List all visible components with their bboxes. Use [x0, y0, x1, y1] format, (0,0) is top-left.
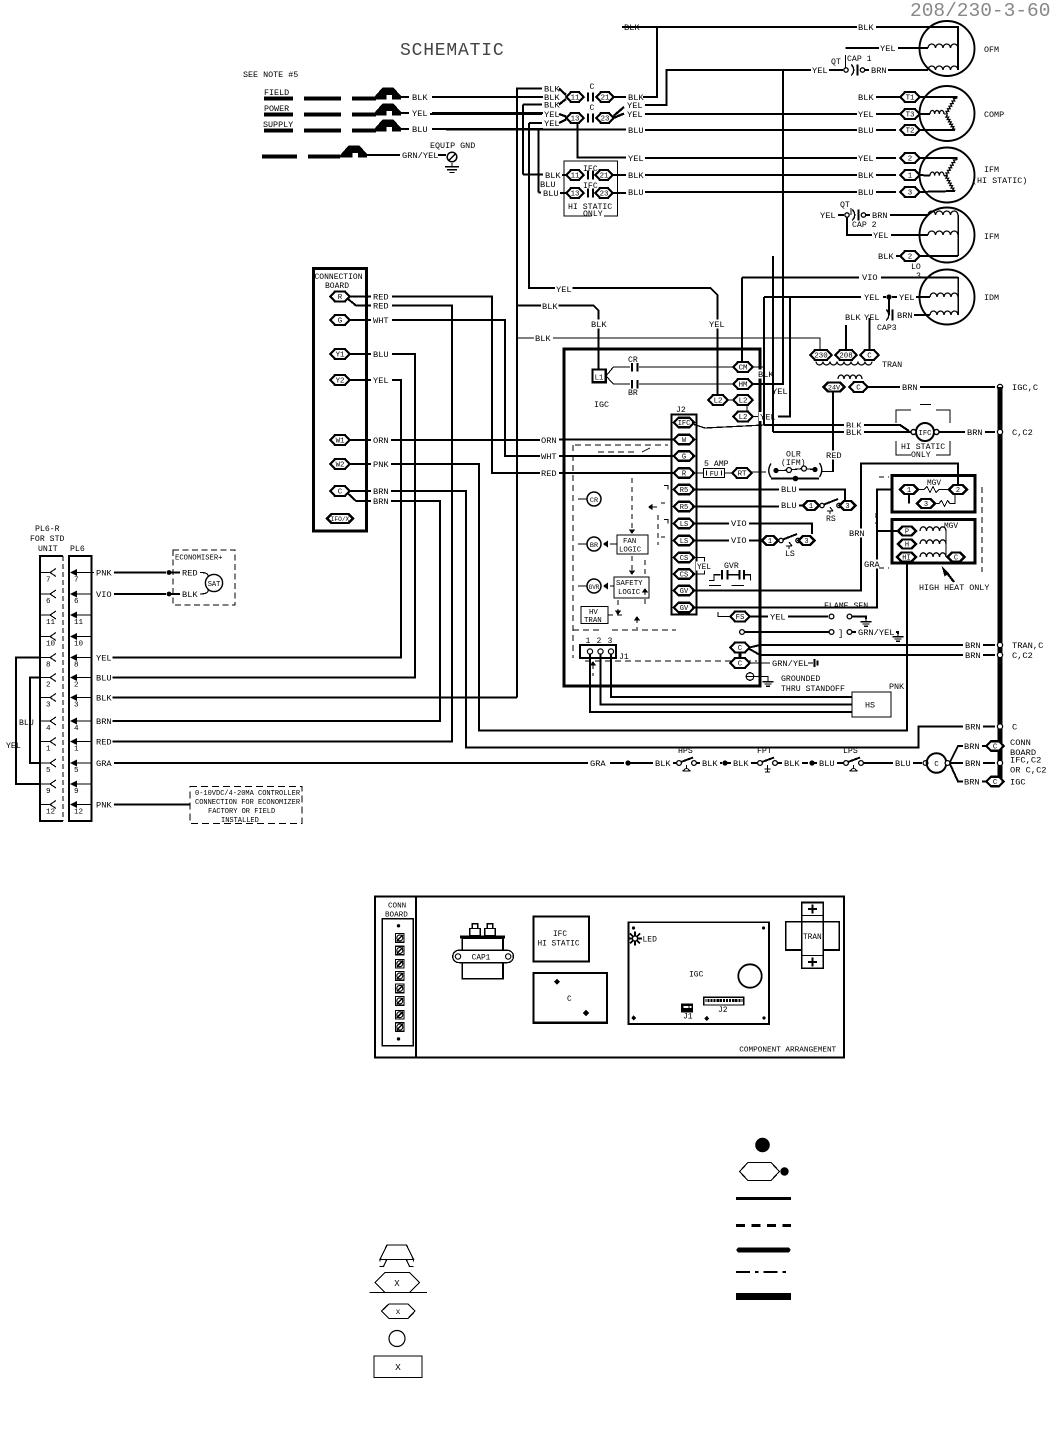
wire BLK trunk riser	[517, 89, 528, 698]
component TRAN	[786, 922, 839, 950]
IFC pole 11-21	[544, 171, 561, 180]
connection board terminal W2	[331, 459, 350, 469]
svg-text:3: 3	[924, 501, 928, 509]
svg-text:IFC: IFC	[583, 165, 598, 174]
svg-text:YEL: YEL	[873, 231, 889, 241]
svg-text:BRN: BRN	[964, 778, 980, 788]
svg-text:6: 6	[46, 598, 51, 606]
wire VIO pin6 to economiser	[95, 590, 112, 599]
svg-text:C: C	[867, 353, 872, 361]
economizer controller note box	[190, 787, 302, 824]
svg-text:SAT: SAT	[208, 581, 221, 589]
PL6 pin 2	[40, 677, 50, 679]
svg-text:VIO: VIO	[862, 273, 878, 283]
conn board terminal strip	[382, 919, 413, 1046]
wire YEL loop pin8 to pin9	[16, 658, 40, 785]
svg-text:BLU: BLU	[96, 674, 112, 684]
wire RED into R	[564, 472, 674, 474]
svg-text:0-10VDC/4-20MA CONTROLLER: 0-10VDC/4-20MA CONTROLLER	[195, 790, 301, 798]
legend splice line	[370, 1292, 428, 1294]
svg-text:IGC: IGC	[689, 971, 704, 980]
wire RED R to IGC R	[372, 292, 389, 301]
svg-text:C,C2: C,C2	[1012, 651, 1033, 661]
legend line dash-dot	[736, 1271, 791, 1273]
connector J1 on board	[681, 1004, 692, 1012]
contactor C pole 13-23	[543, 110, 560, 119]
svg-text:C: C	[338, 489, 343, 497]
legend line thick	[739, 1248, 788, 1253]
svg-text:LS: LS	[680, 538, 688, 546]
PL6 pin 7	[40, 572, 50, 574]
wire WHT G to IGC G	[372, 316, 389, 325]
svg-text:COMP: COMP	[984, 110, 1004, 120]
svg-text:BRN: BRN	[96, 717, 112, 727]
svg-text:6: 6	[74, 598, 79, 606]
svg-text:BRN: BRN	[897, 311, 913, 321]
terminal FS	[731, 612, 750, 622]
wire BLK trunk to PL6-3	[95, 697, 517, 699]
svg-text:Y2: Y2	[336, 378, 345, 386]
wire GRA pin5 chain	[95, 759, 112, 768]
connector J2 on board	[704, 997, 744, 1005]
svg-text:BRN: BRN	[373, 487, 389, 497]
capacitor CAP1 component	[472, 924, 478, 929]
svg-text:GVR: GVR	[724, 562, 739, 571]
svg-text:VIO: VIO	[731, 536, 747, 546]
svg-text:CR: CR	[590, 497, 598, 505]
svg-text:YEL: YEL	[858, 154, 874, 164]
svg-text:RED: RED	[373, 302, 389, 312]
relay coil BR	[587, 537, 601, 551]
wire VIO riser to CM	[741, 278, 743, 363]
svg-text:2: 2	[908, 156, 912, 164]
svg-text:BRN: BRN	[871, 66, 887, 76]
svg-text:RED: RED	[541, 469, 557, 479]
wire J2 IFC to BLK	[694, 425, 764, 429]
svg-text:BLK: BLK	[784, 759, 800, 769]
svg-text:2: 2	[74, 682, 79, 690]
J2 terminal IFC y422	[674, 418, 694, 428]
svg-text:GRA: GRA	[590, 759, 606, 769]
svg-text:13: 13	[571, 191, 580, 199]
svg-text:9: 9	[46, 788, 51, 796]
svg-text:BLK: BLK	[542, 302, 558, 312]
svg-text:1: 1	[46, 746, 51, 754]
svg-text:C: C	[567, 996, 572, 1004]
PL6 pin 12	[40, 804, 50, 806]
svg-text:3: 3	[804, 538, 808, 546]
panel divider	[415, 897, 417, 1058]
svg-text:IFC: IFC	[678, 420, 691, 428]
wire BLU pin2	[95, 673, 112, 682]
svg-text:PNK: PNK	[373, 460, 389, 470]
terminal RT	[733, 468, 752, 478]
svg-text:LOGIC: LOGIC	[618, 589, 641, 597]
wire BRN GV to MGV 2	[694, 464, 958, 591]
PL6 pin 5	[40, 762, 50, 764]
svg-text:BRN: BRN	[872, 211, 888, 221]
svg-text:GV: GV	[680, 605, 689, 613]
svg-text:SAFETY: SAFETY	[616, 580, 643, 588]
switch RS	[803, 501, 819, 510]
svg-text:BR: BR	[590, 542, 598, 550]
svg-text:C: C	[856, 385, 861, 393]
contact BR	[606, 376, 630, 384]
svg-text:W2: W2	[336, 462, 345, 470]
svg-text:J1: J1	[683, 1013, 693, 1022]
svg-text:3: 3	[908, 190, 912, 198]
svg-text:QT: QT	[840, 201, 850, 210]
svg-text:BLK: BLK	[535, 334, 551, 344]
wire RED 24V to OLR	[832, 392, 834, 472]
svg-text:8: 8	[74, 662, 79, 670]
HIGH HEAT ONLY label arrow	[942, 566, 950, 577]
wire BLK to OFM	[623, 23, 640, 32]
svg-text:21: 21	[600, 173, 609, 181]
svg-text:BLU: BLU	[858, 188, 874, 198]
svg-text:BRN: BRN	[967, 428, 983, 438]
connector PL6	[69, 556, 92, 821]
svg-text:CONN: CONN	[1010, 738, 1031, 748]
J2 terminal R y473	[674, 468, 694, 478]
svg-text:Y1: Y1	[336, 352, 345, 360]
svg-text:4: 4	[46, 725, 51, 733]
connection board terminal IFO/X	[327, 514, 353, 523]
svg-text:BLK: BLK	[96, 694, 112, 704]
grounded thru standoff	[746, 673, 754, 681]
svg-text:RT: RT	[738, 471, 747, 479]
svg-text:FACTORY OR FIELD: FACTORY OR FIELD	[208, 808, 275, 816]
SAFETY LOGIC box	[614, 577, 649, 598]
svg-text:R5: R5	[680, 487, 688, 495]
svg-text:(HI STATIC): (HI STATIC)	[972, 176, 1027, 186]
svg-text:BLK: BLK	[845, 313, 861, 323]
svg-text:TRAN: TRAN	[803, 934, 822, 942]
wire BRN pin4	[95, 717, 112, 726]
svg-text:1: 1	[907, 487, 911, 495]
wire RED to PL6-1	[372, 301, 389, 310]
PL6 pin 4	[40, 720, 50, 722]
wire WHT into G	[564, 455, 674, 457]
terminal C wires BRN BRN	[350, 490, 372, 492]
svg-text:IFC: IFC	[919, 430, 933, 438]
svg-text:YEL: YEL	[772, 387, 788, 397]
wire CM BLK riser down	[753, 366, 765, 368]
legend line dashed	[736, 1224, 791, 1227]
svg-text:C: C	[993, 744, 998, 752]
svg-text:BLU: BLU	[895, 759, 911, 769]
svg-text:HI STATIC: HI STATIC	[538, 941, 580, 949]
svg-text:CM: CM	[739, 365, 748, 373]
screw terminal 2	[396, 946, 405, 955]
screw terminal 1	[396, 934, 405, 943]
wire YEL IFM coil	[847, 217, 872, 235]
svg-text:X: X	[395, 1362, 401, 1373]
svg-text:CONN: CONN	[388, 903, 406, 911]
svg-text:BLK: BLK	[412, 93, 428, 103]
legend circle symbol	[389, 1331, 405, 1347]
J2 terminal LS y523	[674, 519, 694, 529]
svg-text:C: C	[954, 555, 958, 563]
legend junction dot	[755, 1138, 770, 1153]
svg-text:YEL: YEL	[544, 119, 560, 129]
svg-text:SEE NOTE #5: SEE NOTE #5	[243, 70, 298, 80]
connection board terminal Y1	[331, 349, 350, 359]
wire RED OLR to 24V	[822, 471, 833, 473]
svg-text:11: 11	[571, 173, 580, 181]
motor IFM HI STATIC	[920, 148, 975, 203]
motor OFM	[920, 21, 975, 76]
screw terminal 5	[396, 984, 405, 993]
svg-text:IFC,C2: IFC,C2	[1010, 756, 1041, 766]
component IGC board	[629, 922, 769, 1024]
wire BRN 24V to bus IGC,C	[868, 386, 901, 388]
wire BLK to IFC coil	[845, 421, 862, 430]
svg-text:PL6-R: PL6-R	[35, 525, 60, 534]
svg-text:BRN: BRN	[964, 742, 980, 752]
svg-text:L2: L2	[714, 398, 723, 406]
gas valve MGV low heat box	[892, 476, 975, 513]
svg-text:YEL: YEL	[864, 293, 880, 303]
high heat only dashed marks	[981, 487, 983, 572]
svg-text:5 AMP: 5 AMP	[704, 460, 729, 469]
svg-text:7: 7	[46, 577, 51, 585]
svg-text:YEL: YEL	[556, 285, 572, 295]
svg-text:BLU: BLU	[858, 126, 874, 136]
wire YEL Y2 to PL6-8	[372, 376, 389, 385]
svg-text:TRAN,C: TRAN,C	[1012, 641, 1043, 651]
svg-text:WHT: WHT	[373, 316, 389, 326]
svg-text:RED: RED	[96, 738, 112, 748]
svg-text:ONLY: ONLY	[911, 451, 931, 460]
LED indicator	[628, 932, 642, 946]
ECONOMISER+ box	[173, 550, 235, 605]
svg-text:IDM: IDM	[984, 293, 999, 303]
svg-text:ONLY: ONLY	[583, 210, 603, 219]
CONNECTION BOARD box	[314, 269, 367, 532]
svg-text:BRN: BRN	[965, 759, 981, 769]
svg-text:BLU: BLU	[628, 126, 644, 136]
wire BRN to IGC	[950, 764, 963, 782]
J2 terminal GV y590	[674, 586, 694, 596]
wire ORN W1 to IGC W	[372, 436, 389, 445]
svg-text:R: R	[338, 294, 343, 302]
svg-text:ECONOMISER+: ECONOMISER+	[175, 555, 222, 563]
svg-text:W1: W1	[336, 438, 345, 446]
svg-text:C: C	[738, 661, 743, 669]
J2 terminal CS y574	[674, 569, 694, 579]
wire HM to YEL riser	[753, 70, 784, 384]
relay coil GVR	[587, 579, 601, 593]
connection board terminal R	[331, 292, 350, 302]
wire C to bus TRAN,C and C,C2	[750, 645, 964, 648]
IFC contacts HI STATIC ONLY box	[564, 161, 618, 216]
wire BLU riser to IFC 13	[538, 130, 540, 193]
svg-text:OR C,C2: OR C,C2	[1010, 766, 1047, 776]
svg-text:LS: LS	[785, 550, 795, 559]
screw terminal 6	[396, 997, 405, 1006]
wire YEL to CAP1	[614, 107, 625, 116]
svg-text:CONNECTION FOR ECONOMIZER: CONNECTION FOR ECONOMIZER	[195, 799, 301, 807]
svg-text:IFM: IFM	[984, 232, 999, 242]
svg-text:BLU: BLU	[373, 350, 389, 360]
wire YEL OFM	[846, 47, 880, 49]
wire PNK pin7 to economiser	[95, 568, 112, 577]
J2 terminal LS y540	[674, 536, 694, 546]
svg-text:BLU: BLU	[628, 188, 644, 198]
wire BRN to bus IFC,C2	[950, 762, 963, 764]
svg-text:IGC,C: IGC,C	[1012, 383, 1038, 393]
FAN LOGIC box	[617, 535, 648, 554]
svg-text:YEL: YEL	[628, 154, 644, 164]
svg-text:C: C	[738, 645, 743, 653]
svg-text:BLK: BLK	[878, 252, 894, 262]
svg-text:MGV: MGV	[927, 480, 941, 488]
motor IDM	[920, 270, 975, 325]
svg-text:RS: RS	[826, 515, 836, 524]
wire BLU R5 to RS 1	[694, 506, 779, 508]
IFC pole 13-23	[539, 180, 556, 189]
svg-text:BLK: BLK	[858, 23, 874, 33]
connection board terminal Y2	[331, 375, 350, 385]
svg-text:BLU: BLU	[819, 759, 835, 769]
svg-text:1: 1	[809, 503, 813, 511]
svg-text:CS: CS	[680, 555, 688, 563]
PL6 pin 9	[40, 783, 50, 785]
svg-text:IGC: IGC	[1010, 778, 1026, 788]
wire VIO LS to 3	[694, 523, 729, 525]
svg-text:10: 10	[46, 641, 56, 649]
svg-text:YEL: YEL	[709, 320, 725, 330]
legend box symbol	[374, 1356, 422, 1378]
svg-text:CS: CS	[680, 572, 688, 580]
svg-text:X: X	[394, 1279, 400, 1289]
svg-text:13: 13	[571, 116, 580, 124]
svg-text:H: H	[905, 542, 909, 550]
svg-text:11: 11	[571, 95, 580, 103]
svg-text:FS: FS	[736, 614, 745, 622]
svg-text:GRA: GRA	[864, 560, 880, 570]
IGC control board box	[564, 349, 760, 686]
svg-text:23: 23	[601, 116, 610, 124]
svg-text:10: 10	[74, 641, 84, 649]
PL6 pin 11	[40, 614, 50, 616]
svg-text:BLK: BLK	[758, 370, 774, 380]
svg-text:208: 208	[839, 353, 852, 361]
module HS	[852, 692, 891, 717]
svg-text:SCHEMATIC: SCHEMATIC	[400, 41, 504, 61]
wire VIO IDM	[861, 273, 878, 282]
svg-text:YEL: YEL	[412, 109, 428, 119]
svg-text:208/230-3-60: 208/230-3-60	[910, 0, 1050, 22]
svg-text:C: C	[590, 104, 595, 113]
svg-text:GV: GV	[680, 588, 689, 596]
sensor gap row	[740, 630, 745, 635]
svg-text:GRA: GRA	[96, 759, 112, 769]
svg-text:RED: RED	[182, 569, 198, 579]
svg-text:BOARD: BOARD	[325, 282, 349, 291]
terminal R wires RED RED	[350, 296, 372, 298]
PL6 pin 10	[40, 636, 50, 638]
svg-text:T2: T2	[906, 128, 915, 136]
svg-text:INSTALLED: INSTALLED	[221, 817, 259, 825]
svg-text:BLK: BLK	[544, 101, 560, 111]
wire GRA GV to MGV	[694, 490, 892, 608]
svg-text:1: 1	[908, 173, 913, 181]
svg-text:IFC: IFC	[583, 182, 598, 191]
svg-text:IGC: IGC	[594, 400, 609, 410]
COMP winding	[930, 110, 944, 114]
svg-text:YEL: YEL	[373, 376, 389, 386]
transformer TRAN primary	[844, 313, 861, 322]
svg-text:BRN: BRN	[965, 723, 981, 733]
legend arrowhead symbol	[380, 1245, 414, 1260]
svg-text:3: 3	[46, 702, 51, 710]
svg-text:IFM: IFM	[984, 165, 999, 175]
vertical bus wire	[998, 387, 1003, 782]
svg-text:3: 3	[74, 702, 79, 710]
svg-text:HS: HS	[865, 701, 875, 711]
svg-text:GVR: GVR	[589, 584, 600, 591]
svg-text:GRN/YEL: GRN/YEL	[772, 659, 809, 669]
svg-text:IFO/X: IFO/X	[331, 516, 350, 523]
svg-text:L2: L2	[739, 398, 748, 406]
svg-text:BR: BR	[628, 389, 638, 398]
svg-text:G: G	[338, 318, 342, 326]
wire YEL trunk riser	[529, 123, 718, 397]
TRAN primary winding	[816, 362, 872, 366]
svg-text:GRN/YEL: GRN/YEL	[402, 151, 439, 161]
wire GRN/YEL from C	[750, 662, 771, 664]
wire VIO LS to 1	[694, 540, 729, 542]
svg-text:THRU STANDOFF: THRU STANDOFF	[781, 685, 845, 694]
svg-text:CONNECTION: CONNECTION	[315, 273, 363, 282]
IGC internal dashed logic	[572, 445, 574, 658]
svg-text:x: x	[396, 1308, 401, 1317]
svg-text:TRAN: TRAN	[882, 360, 902, 370]
svg-text:FLAME SEN: FLAME SEN	[824, 602, 868, 611]
svg-text:BLK: BLK	[846, 428, 862, 438]
svg-text:J2: J2	[718, 1006, 728, 1015]
svg-text:OFM: OFM	[984, 45, 999, 55]
svg-text:YEL: YEL	[899, 293, 915, 303]
svg-text:YEL: YEL	[812, 66, 828, 76]
motor COMP	[920, 86, 975, 141]
screw terminal 4	[396, 972, 405, 981]
svg-text:T1: T1	[906, 95, 915, 103]
screw terminal 7	[396, 1010, 405, 1019]
svg-text:23: 23	[600, 191, 609, 199]
wire BLK riser to IFC 11	[522, 105, 524, 175]
svg-text:CAP1: CAP1	[472, 955, 491, 963]
COMPONENT ARRANGEMENT panel	[375, 897, 844, 1058]
MGV terminal 3	[908, 494, 910, 504]
svg-text:1: 1	[768, 538, 772, 546]
safety chain GRA HPS FPT LPS	[589, 759, 606, 768]
capacitor CAP3	[888, 299, 890, 315]
svg-text:BLK: BLK	[591, 320, 607, 330]
svg-text:9: 9	[74, 788, 79, 796]
svg-text:21: 21	[601, 95, 610, 103]
svg-text:PNK: PNK	[889, 682, 905, 692]
svg-text:2: 2	[956, 487, 960, 495]
svg-text:ORN: ORN	[541, 436, 557, 446]
svg-text:LO: LO	[911, 263, 921, 272]
svg-text:CAP 1: CAP 1	[847, 55, 872, 64]
svg-text:LPS: LPS	[843, 747, 858, 756]
legend terminal hexagon small	[382, 1304, 416, 1319]
legend plug hexagon with pin	[740, 1163, 780, 1181]
